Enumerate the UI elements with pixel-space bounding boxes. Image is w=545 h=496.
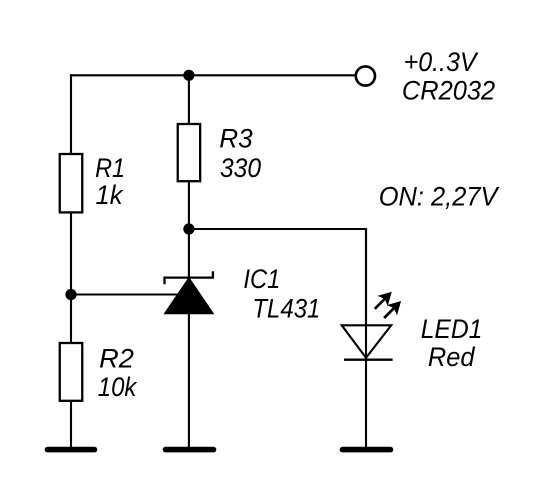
- wire R1 to node A: [70, 212, 72, 294]
- wire left branch top (rail to R1): [70, 74, 72, 154]
- wire R2 to ground: [70, 401, 72, 448]
- svg-text:10k: 10k: [98, 372, 138, 402]
- resistor R1: [60, 154, 83, 212]
- svg-text:330: 330: [220, 153, 261, 183]
- node B junction dot (R3/IC1/LED): [183, 223, 194, 234]
- LED1 light arrow 1: [375, 292, 392, 309]
- wire R3 to node B: [188, 180, 190, 229]
- wire IC1 anode to ground: [188, 314, 190, 449]
- diode LED1 cathode bar: [344, 359, 393, 361]
- wire LED anode through triangle: [365, 229, 367, 360]
- svg-text:+0..3V: +0..3V: [404, 47, 480, 77]
- svg-text:TL431: TL431: [252, 294, 320, 324]
- svg-text:1k: 1k: [96, 180, 124, 210]
- svg-text:LED1: LED1: [421, 314, 483, 344]
- wire node A to R2: [70, 295, 72, 344]
- svg-text:ON: 2,27V: ON: 2,27V: [379, 182, 501, 212]
- wire rail node to R3: [188, 75, 190, 124]
- wire LED cathode to ground: [365, 360, 367, 448]
- node A junction dot (R1/R2/ref): [65, 289, 76, 300]
- LED1 light arrow 2: [384, 301, 401, 318]
- svg-text:Red: Red: [428, 342, 476, 372]
- diode LED1 triangle: [342, 325, 392, 358]
- wire node A to IC1 reference pin: [71, 293, 181, 295]
- op-amp U1 IC1 TL431 cathode bar: [165, 271, 213, 284]
- svg-text:R2: R2: [99, 344, 134, 374]
- ground bar under LED1: [343, 447, 391, 453]
- svg-text:IC1: IC1: [243, 264, 280, 294]
- wire node B to LED branch: [189, 229, 366, 326]
- wire node B to IC1 cathode: [188, 229, 190, 278]
- transistor Q1 IC1 TL431 triangle: [165, 278, 213, 313]
- resistor R2: [60, 343, 83, 401]
- svg-text:R1: R1: [95, 153, 125, 183]
- ground bar under R2: [48, 447, 95, 453]
- ground bar under IC1: [166, 447, 214, 453]
- resistor R3: [178, 124, 200, 181]
- svg-text:R3: R3: [219, 123, 252, 153]
- svg-text:CR2032: CR2032: [402, 76, 495, 106]
- node top junction dot (rail/R3): [183, 70, 194, 81]
- wire top rail from R1 branch to battery terminal: [70, 74, 355, 76]
- terminal circle battery +: [356, 66, 375, 85]
